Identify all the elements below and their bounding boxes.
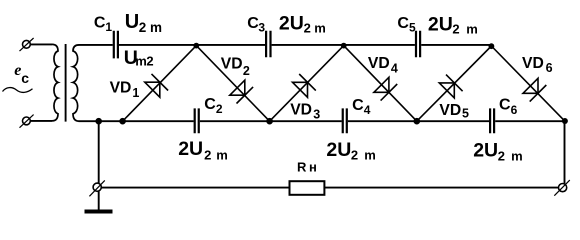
svg-text:1: 1 <box>105 20 112 34</box>
svg-text:m: m <box>216 148 228 163</box>
svg-text:2: 2 <box>304 20 311 35</box>
svg-text:m: m <box>466 21 478 36</box>
svg-text:4: 4 <box>364 103 371 117</box>
svg-text:C: C <box>397 15 409 32</box>
svg-text:e: e <box>14 62 21 79</box>
svg-text:R: R <box>297 160 307 175</box>
svg-text:m: m <box>511 149 523 164</box>
svg-text:2: 2 <box>452 21 459 36</box>
svg-text:1: 1 <box>132 86 139 100</box>
svg-text:C: C <box>352 97 364 114</box>
svg-text:VD: VD <box>221 55 243 72</box>
svg-text:6: 6 <box>511 103 518 117</box>
svg-text:2U: 2U <box>326 139 351 161</box>
svg-text:C: C <box>247 15 259 32</box>
svg-text:VD: VD <box>522 55 544 72</box>
svg-text:2U: 2U <box>178 138 203 160</box>
svg-text:2: 2 <box>146 54 153 69</box>
svg-text:2: 2 <box>216 102 223 116</box>
svg-text:2: 2 <box>351 147 358 162</box>
svg-text:m: m <box>150 20 162 35</box>
svg-text:C: C <box>94 15 106 32</box>
svg-text:3: 3 <box>313 107 320 121</box>
svg-text:VD: VD <box>439 102 461 119</box>
svg-text:2: 2 <box>204 148 211 163</box>
svg-text:н: н <box>309 160 317 175</box>
svg-text:2U: 2U <box>279 12 304 34</box>
svg-text:2U: 2U <box>473 140 498 162</box>
svg-text:5: 5 <box>409 21 416 35</box>
svg-text:VD: VD <box>290 102 312 119</box>
svg-text:C: C <box>204 96 216 113</box>
svg-text:C: C <box>499 97 511 114</box>
svg-text:5: 5 <box>462 106 469 120</box>
svg-text:2: 2 <box>243 64 250 78</box>
svg-text:m: m <box>364 147 376 162</box>
svg-text:2: 2 <box>498 149 505 164</box>
svg-text:VD: VD <box>110 79 132 96</box>
svg-text:4: 4 <box>391 62 398 76</box>
svg-text:3: 3 <box>258 20 265 34</box>
svg-text:2U: 2U <box>428 13 453 35</box>
svg-text:U: U <box>125 11 139 33</box>
svg-text:6: 6 <box>546 61 553 75</box>
svg-text:m: m <box>314 20 326 35</box>
svg-text:m: m <box>135 54 147 69</box>
svg-text:c: c <box>21 70 29 86</box>
svg-text:2: 2 <box>139 20 147 35</box>
svg-text:VD: VD <box>368 55 390 72</box>
